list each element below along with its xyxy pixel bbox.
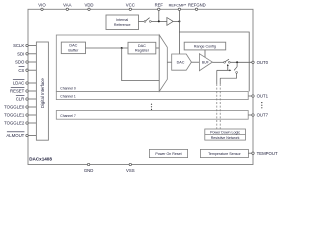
svg-text:Buffer: Buffer xyxy=(68,49,79,53)
ellipsis outputs xyxy=(261,102,262,108)
pin TEMPOUT xyxy=(252,151,278,156)
digital interface block xyxy=(36,42,48,140)
svg-text:DAC: DAC xyxy=(177,61,185,65)
wire buffer output to REFCMP node xyxy=(173,20,179,22)
svg-text:REF: REF xyxy=(155,3,164,8)
DAC core xyxy=(172,54,192,70)
svg-text:ALMOUT: ALMOUT xyxy=(6,133,24,138)
pin REFCMP xyxy=(169,4,187,11)
svg-text:REFCMP*: REFCMP* xyxy=(169,4,187,8)
pin VSS xyxy=(126,163,135,173)
ellipsis channels xyxy=(151,104,152,110)
pin VCC xyxy=(126,3,135,11)
svg-text:Register: Register xyxy=(135,49,150,53)
wire DAC register to mux xyxy=(156,47,160,49)
DAC buffer register block xyxy=(61,42,85,54)
svg-text:OUT0: OUT0 xyxy=(257,60,269,65)
reference buffer amp xyxy=(167,18,173,26)
svg-text:CS: CS xyxy=(18,68,24,73)
svg-text:Channel 7: Channel 7 xyxy=(60,114,76,118)
powerdown switch at OUT0 junction xyxy=(220,62,237,78)
reference enable switch xyxy=(144,18,151,23)
svg-text:CLR: CLR xyxy=(16,97,25,102)
power down logic / resistive network block xyxy=(205,129,246,140)
left pin TOGGLE1 xyxy=(4,113,36,118)
wire internal reference to switch xyxy=(139,20,145,22)
left pin LDAC (active low) xyxy=(13,79,37,85)
svg-text:Internal: Internal xyxy=(116,18,128,22)
svg-text:SCLK: SCLK xyxy=(13,43,24,48)
node buffer tap xyxy=(121,47,123,49)
node REFCMP junction xyxy=(178,20,180,22)
output switch xyxy=(224,59,231,63)
wire BUF to output switch xyxy=(212,61,223,63)
svg-text:VAA: VAA xyxy=(63,3,71,8)
svg-text:BUF: BUF xyxy=(202,60,209,64)
svg-text:SDO: SDO xyxy=(15,60,25,65)
output buffer BUF xyxy=(199,54,212,71)
left pin CS (active low) xyxy=(18,67,36,73)
svg-text:GND: GND xyxy=(84,168,94,173)
left pin CLR (active low) xyxy=(16,95,37,101)
svg-text:TOGGLE0: TOGGLE0 xyxy=(4,105,25,110)
svg-text:OUT7: OUT7 xyxy=(257,113,269,118)
left pin SCLK xyxy=(13,43,36,48)
outer chip boundary xyxy=(28,9,253,164)
pin VAA xyxy=(63,3,71,11)
powerdown control line 1 xyxy=(216,70,218,129)
svg-text:VSS: VSS xyxy=(126,168,135,173)
powerdown control line 2 xyxy=(219,78,221,129)
powerdown feed line with right arrow xyxy=(217,69,232,71)
channel 7 block xyxy=(56,111,248,120)
svg-text:Digital Interface: Digital Interface xyxy=(40,78,45,108)
power on reset block xyxy=(149,149,187,157)
left pin SDI xyxy=(17,52,36,57)
pin REFGND xyxy=(188,3,206,11)
wire mux to DAC xyxy=(167,61,171,63)
wire DAC to output buffer xyxy=(191,61,199,63)
svg-text:VCC: VCC xyxy=(126,3,135,8)
wire range config to buffer xyxy=(204,50,206,57)
svg-text:Channel 1: Channel 1 xyxy=(60,95,76,99)
svg-text:VDD: VDD xyxy=(84,3,93,8)
range config block xyxy=(184,42,226,50)
pin OUT7 xyxy=(248,113,268,118)
svg-text:DAC: DAC xyxy=(138,44,146,48)
wire REF pin stub xyxy=(158,11,160,22)
pin OUT0 xyxy=(252,60,269,65)
svg-text:Power On Reset: Power On Reset xyxy=(155,152,181,156)
svg-text:RESET: RESET xyxy=(10,89,25,94)
svg-text:Reference: Reference xyxy=(114,23,131,27)
internal reference block xyxy=(106,15,139,30)
node REF junction xyxy=(158,20,160,22)
DAC register block xyxy=(128,42,156,54)
left pin TOGGLE2 xyxy=(4,121,36,126)
svg-text:Channel 0: Channel 0 xyxy=(60,87,76,91)
svg-text:REFGND: REFGND xyxy=(188,3,206,8)
svg-text:LDAC: LDAC xyxy=(13,81,24,86)
wire buffer tap to mux lower input xyxy=(122,48,160,81)
svg-text:TOGGLE2: TOGGLE2 xyxy=(4,121,25,126)
wire REFCMP vertical (pin to DAC top) xyxy=(178,11,180,55)
svg-text:VIO: VIO xyxy=(38,3,46,8)
svg-text:SDI: SDI xyxy=(17,52,24,57)
pin OUT1 xyxy=(248,94,268,99)
pin REF xyxy=(155,3,164,11)
svg-text:Range Config: Range Config xyxy=(194,44,216,48)
pin VDD xyxy=(84,3,93,11)
svg-text:Power Down Logic: Power Down Logic xyxy=(210,130,240,134)
pin VIO xyxy=(38,3,46,11)
wire DAC buffer to DAC register xyxy=(86,47,129,49)
left pin TOGGLE0 xyxy=(4,105,36,110)
mux trapezoid xyxy=(159,35,167,91)
svg-text:DAC: DAC xyxy=(69,44,77,48)
left pin SDO xyxy=(15,60,36,65)
channel 1 block xyxy=(56,91,248,99)
wire switch to OUT0 pin xyxy=(230,61,252,63)
svg-text:OUT1: OUT1 xyxy=(257,94,269,99)
left pin RESET (active low) xyxy=(10,87,36,93)
powerdown up arrow xyxy=(227,64,229,70)
pin GND xyxy=(84,163,94,173)
channel 0 block xyxy=(56,35,159,91)
svg-text:Resistive Network: Resistive Network xyxy=(211,136,240,140)
svg-text:TOGGLE1: TOGGLE1 xyxy=(4,113,25,118)
left pin ALMOUT (active low) xyxy=(6,132,36,138)
svg-text:DACx1408: DACx1408 xyxy=(29,156,52,161)
wire switch to reference buffer xyxy=(151,20,167,22)
svg-text:Temperature Sensor: Temperature Sensor xyxy=(208,152,241,156)
node OUT0 junction xyxy=(236,61,238,63)
wire temperature sensor to TEMPOUT xyxy=(248,152,252,154)
svg-text:TEMPOUT: TEMPOUT xyxy=(257,151,278,156)
wire reference distribution to channels xyxy=(179,32,249,91)
temperature sensor block xyxy=(200,149,248,157)
